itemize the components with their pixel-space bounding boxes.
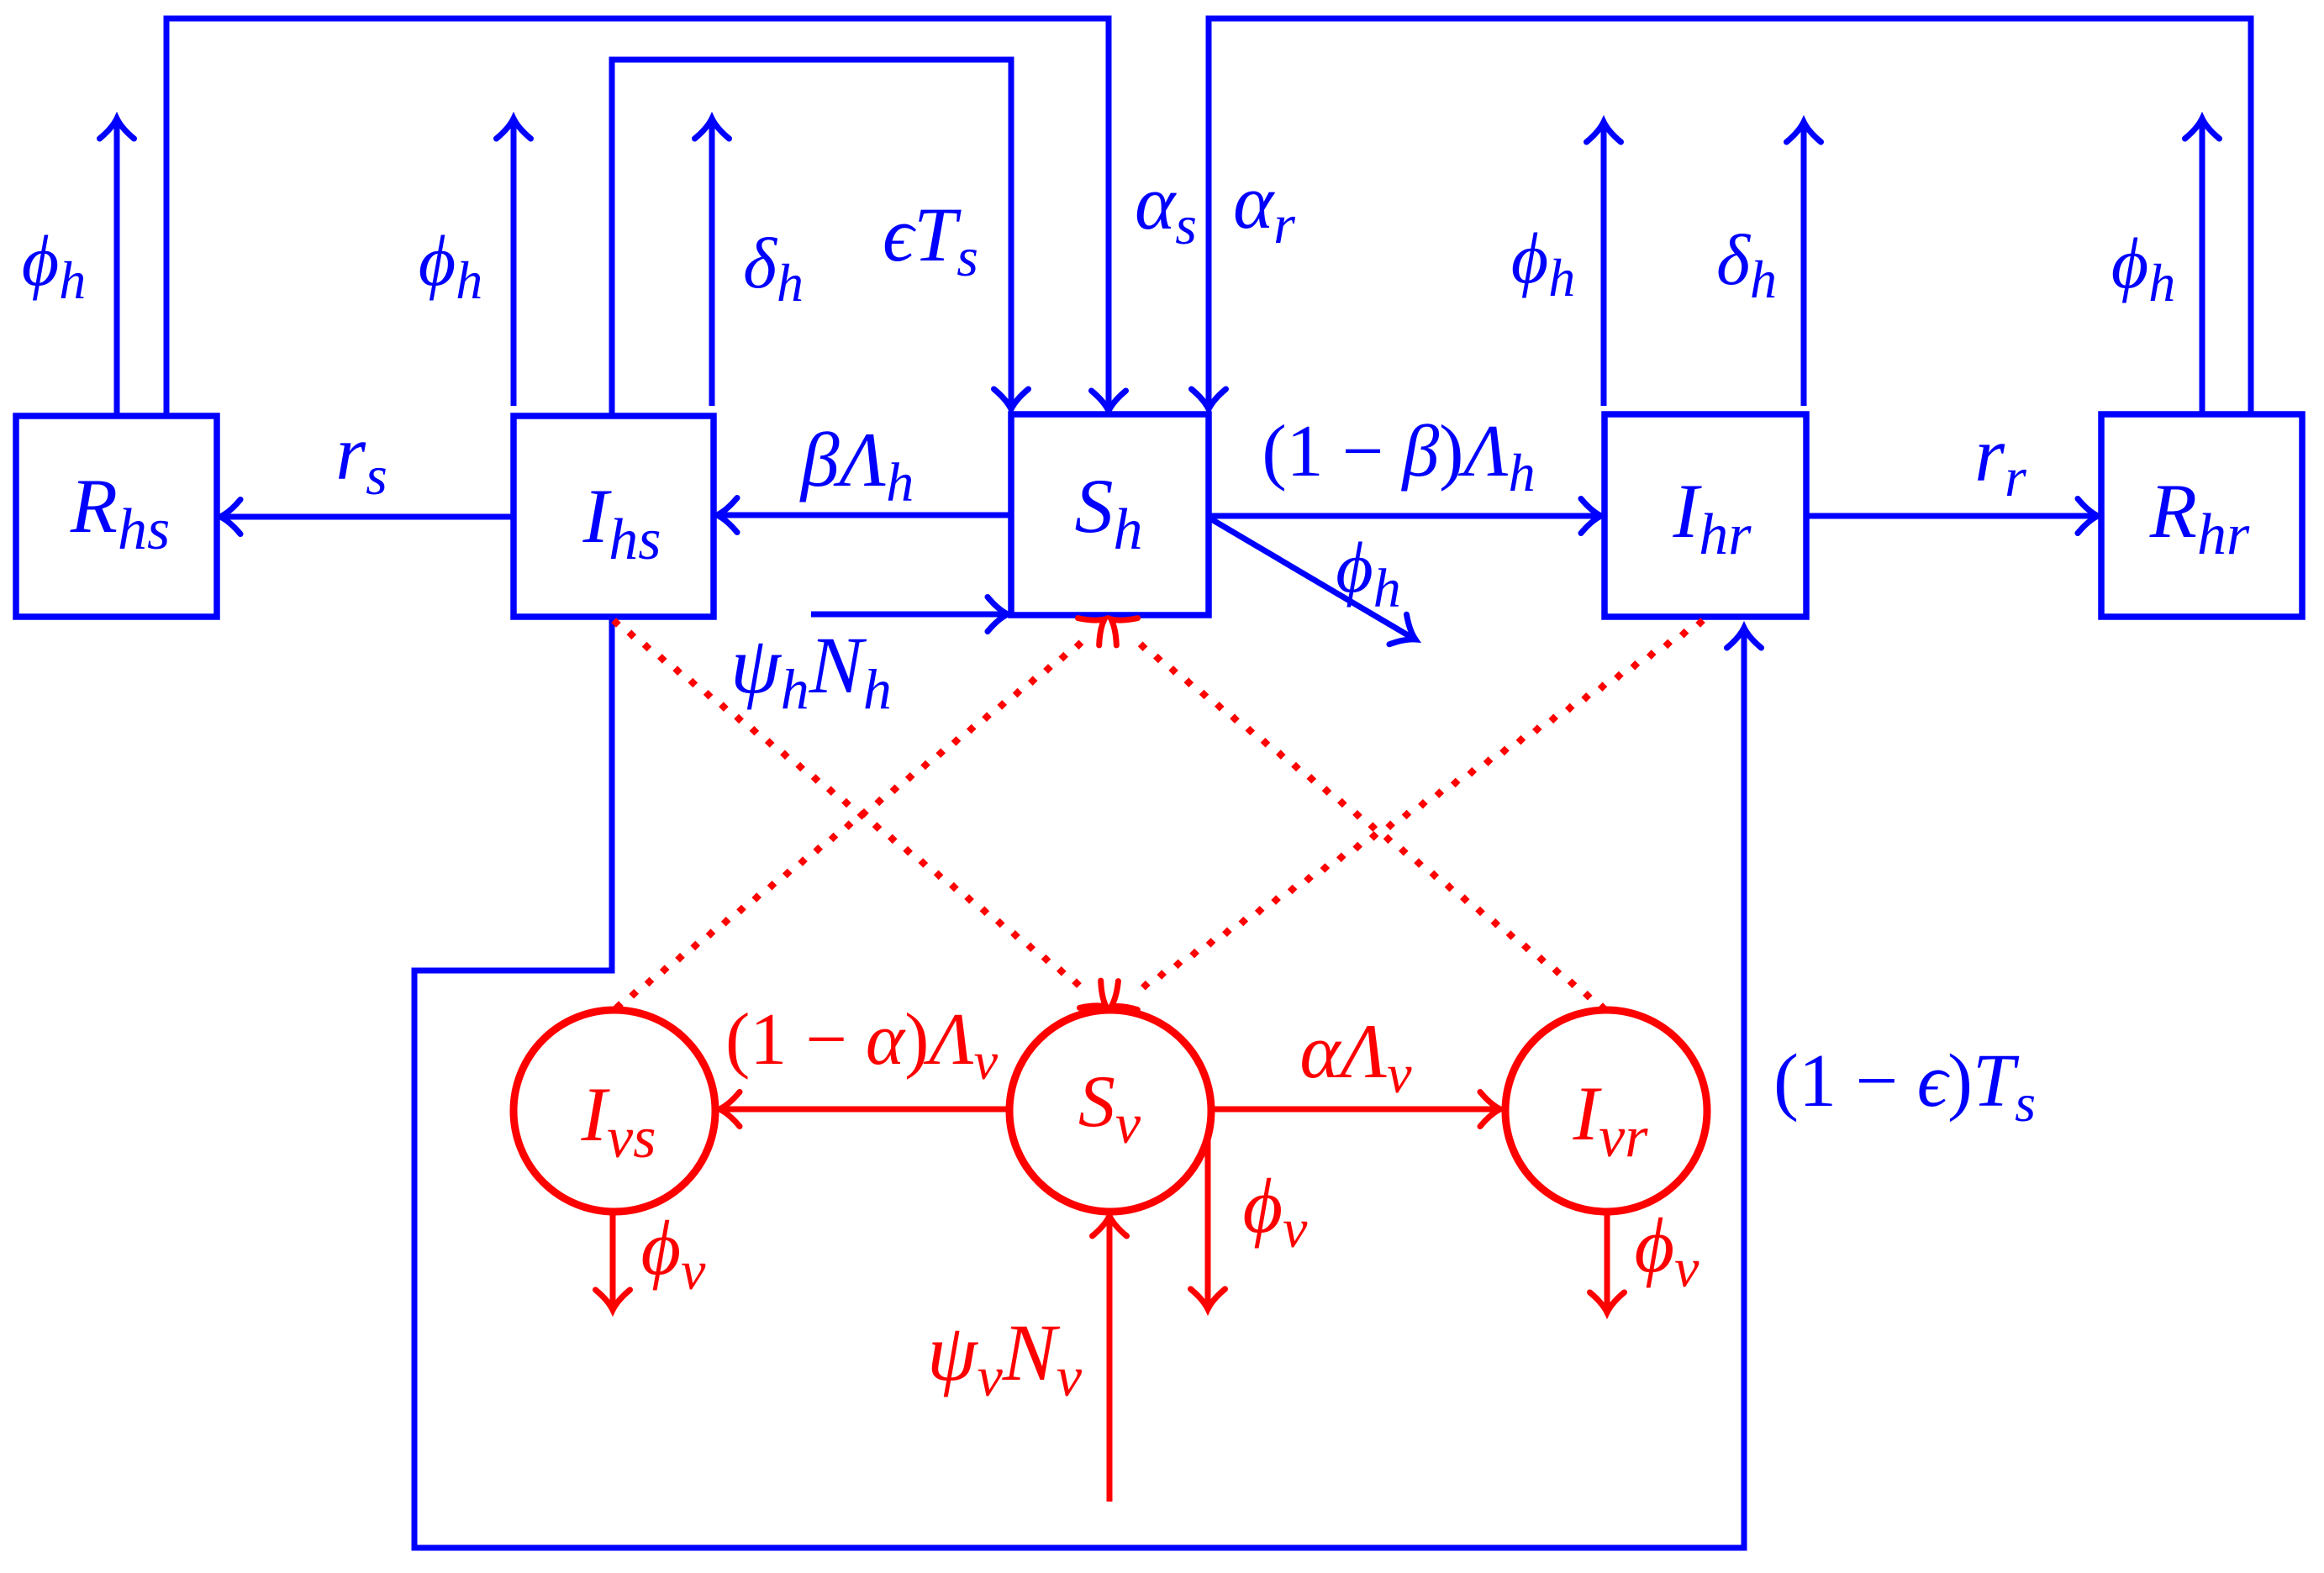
svg-text:αΛv: αΛv <box>1299 1008 1412 1105</box>
node I_vs <box>514 1010 715 1212</box>
arrowhead (1-eps)Ts into I_hr bottom <box>1727 628 1762 648</box>
arrow (1-alpha) Lambda_v from S_v to I_vs <box>721 1107 1012 1113</box>
svg-text:Sv: Sv <box>1078 1061 1141 1155</box>
svg-text:αs: αs <box>1135 160 1197 256</box>
arrow (1-beta) Lambda_h from S_h to I_hr <box>1209 513 1599 519</box>
dotted line I_vs to S_h <box>614 640 1083 1011</box>
svg-text:ϕh: ϕh <box>1336 527 1401 619</box>
svg-text:ϕv: ϕv <box>641 1205 707 1302</box>
svg-text:Ivr: Ivr <box>1573 1071 1649 1170</box>
svg-text:Rhs: Rhs <box>70 463 170 562</box>
svg-text:Sh: Sh <box>1075 463 1143 562</box>
arrow psi_h N_h into S_h bottom left <box>811 612 1006 618</box>
dotted line I_vr to S_h <box>1138 641 1608 1012</box>
arrow phi_h up from I_hs <box>511 120 517 406</box>
arrow delta_h up from I_hr <box>1801 124 1807 406</box>
wire rail R_hs to S_h (alpha_s loop) <box>166 18 1109 416</box>
node I_vr <box>1505 1010 1707 1212</box>
arrowhead dotted into S_h bottom (from I_vs) <box>1078 606 1115 645</box>
wire rail I_hs to S_h (epsilon Ts loop) <box>612 60 1011 416</box>
arrowhead alpha_r into S_h top <box>1192 389 1226 409</box>
node R_hr <box>2101 414 2302 617</box>
node S_h <box>1011 414 1209 615</box>
svg-text:(1 − β)Λh: (1 − β)Λh <box>1262 411 1535 502</box>
arrow phi_v down from I_vs <box>610 1212 616 1308</box>
svg-text:ϕh: ϕh <box>1511 218 1576 308</box>
svg-text:ψhNh: ψhNh <box>730 620 892 721</box>
svg-text:Ihs: Ihs <box>582 473 661 572</box>
node I_hr <box>1605 414 1806 617</box>
svg-text:Ivs: Ivs <box>581 1071 656 1171</box>
node I_hs <box>514 416 714 617</box>
svg-text:ψvNv: ψvNv <box>927 1307 1083 1408</box>
arrow phi_h up from R_hr <box>2200 120 2205 414</box>
arrowhead dotted into S_v top (from I_hs) <box>1079 981 1116 1020</box>
arrowhead dotted into S_v top (from I_hr) <box>1102 981 1138 1021</box>
arrow phi_h up from I_hr <box>1601 124 1607 406</box>
arrow r_r from I_hr to R_hr <box>1806 513 2096 519</box>
arrowhead epsilon Ts into S_h top <box>994 389 1029 409</box>
arrowhead dotted into S_h bottom (from I_vr) <box>1100 606 1137 645</box>
wire big loop I_hs bottom to I_hr bottom ((1-eps)Ts) <box>414 617 1744 1548</box>
node S_v <box>1009 1010 1211 1212</box>
arrow phi_h diagonal out of S_h <box>1209 518 1414 639</box>
svg-text:Rhr: Rhr <box>2149 468 2250 567</box>
svg-text:ϕh: ϕh <box>22 220 87 310</box>
svg-text:αr: αr <box>1233 159 1295 255</box>
svg-text:rs: rs <box>335 410 387 507</box>
svg-text:ϕv: ϕv <box>1243 1163 1309 1260</box>
arrow phi_h up from R_hs <box>114 120 120 416</box>
svg-text:ϵTs: ϵTs <box>883 192 978 288</box>
svg-text:ϕh: ϕh <box>419 220 483 310</box>
svg-text:ϕv: ϕv <box>1635 1202 1700 1299</box>
arrow psi_v N_v into S_v bottom <box>1107 1218 1113 1502</box>
arrow alpha Lambda_v from S_v to I_vr <box>1209 1107 1499 1113</box>
arrowhead alpha_s into S_h top <box>1092 391 1126 411</box>
svg-text:(1 − ϵ)Ts: (1 − ϵ)Ts <box>1773 1039 2036 1133</box>
svg-text:rr: rr <box>1974 412 2026 508</box>
dotted line I_hr to S_v <box>1141 618 1705 990</box>
node R_hs <box>16 416 217 617</box>
arrow phi_v down from S_v <box>1205 1137 1211 1307</box>
arrow beta Lambda_h from S_h to I_hs <box>719 513 1011 518</box>
svg-text:δh: δh <box>1716 219 1777 309</box>
svg-text:Ihr: Ihr <box>1673 468 1752 567</box>
svg-text:ϕh: ϕh <box>2111 223 2176 313</box>
svg-text:δh: δh <box>743 223 804 313</box>
wire rail R_hr to S_h (alpha_r loop) <box>1209 18 2251 414</box>
arrow delta_h up from I_hs <box>709 120 715 406</box>
svg-text:(1 − α)Λv: (1 − α)Λv <box>725 999 999 1091</box>
arrow r_s from I_hs to R_hs <box>222 514 514 520</box>
arrow phi_v down from I_vr <box>1605 1212 1610 1311</box>
svg-text:βΛh: βΛh <box>799 417 914 513</box>
dotted line I_hs to S_v <box>611 618 1082 988</box>
